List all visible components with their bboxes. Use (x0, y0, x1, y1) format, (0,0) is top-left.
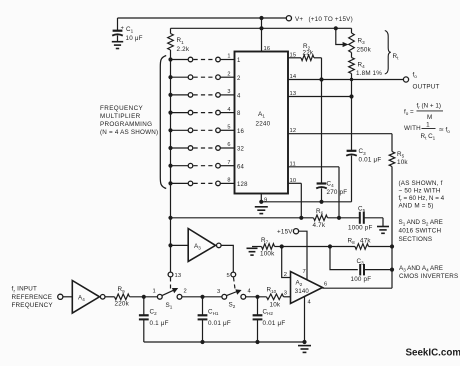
svg-text:+15V: +15V (277, 229, 293, 236)
svg-text:2240: 2240 (256, 121, 271, 128)
svg-text:15: 15 (290, 52, 297, 58)
switch row 2 (pin 2, weight 2) (168, 75, 172, 79)
svg-text:6: 6 (227, 142, 230, 148)
terminal V+ (286, 16, 291, 21)
svg-text:22k: 22k (303, 50, 314, 57)
wire switch common bus (170, 60, 172, 272)
capacitor C4 270pF (321, 80, 323, 184)
capacitor C5 1000pF (359, 212, 361, 224)
svg-text:2: 2 (184, 289, 187, 295)
resistor R10 10k (267, 294, 284, 300)
svg-text:3140: 3140 (295, 289, 310, 295)
capacitor C6 100pF feedback (330, 247, 358, 270)
svg-text:7: 7 (227, 160, 230, 166)
bracket frequency multiplier programming (160, 56, 166, 189)
svg-text:SECTIONS: SECTIONS (399, 236, 433, 243)
terminal 13 (S1 control) (168, 272, 173, 277)
svg-text:4: 4 (308, 299, 312, 305)
svg-text:250k: 250k (357, 47, 372, 54)
potentiometer R3 250k (351, 28, 353, 33)
svg-text:16: 16 (264, 46, 271, 52)
svg-text:9: 9 (264, 197, 267, 203)
pin 15 wire and R2 22k (288, 57, 301, 59)
svg-text:10k: 10k (397, 159, 408, 166)
svg-text:220k: 220k (115, 301, 130, 308)
svg-text:fo =: fo = (404, 108, 414, 116)
capacitor C2 0.1uF (143, 297, 145, 315)
switch row 6 (pin 6, weight 32) (168, 146, 172, 150)
wire bottom ground rail (144, 341, 305, 343)
svg-text:(N = 4 AS SHOWN): (N = 4 AS SHOWN) (100, 129, 158, 136)
svg-text:FREQUENCY: FREQUENCY (100, 105, 144, 112)
switch row 5 (pin 5, weight 16) (168, 128, 172, 132)
wire +15V to pin 7 (299, 231, 307, 280)
svg-text:16: 16 (237, 129, 245, 135)
svg-text:1000 pF: 1000 pF (348, 225, 373, 232)
svg-text:1: 1 (237, 58, 241, 64)
inverter A3 (188, 229, 215, 262)
svg-text:0.1 μF: 0.1 μF (150, 320, 169, 327)
resistor R1 2.2k (170, 28, 172, 33)
svg-text:1: 1 (426, 122, 430, 129)
svg-text:4: 4 (227, 107, 230, 113)
resistor R7 100k (252, 246, 262, 248)
svg-text:1.8M: 1.8M (356, 70, 371, 77)
svg-text:5: 5 (227, 273, 230, 279)
ground under C1 (112, 41, 123, 43)
svg-text:5: 5 (227, 125, 230, 131)
wire A3 input tap (168, 243, 172, 247)
svg-text:fr (N + 1): fr (N + 1) (417, 102, 441, 110)
svg-text:PROGRAMMING: PROGRAMMING (100, 121, 152, 128)
svg-text:10k: 10k (270, 302, 281, 309)
switch row 4 (pin 4, weight 8) (168, 111, 172, 115)
capacitor CH2 0.01uF (257, 297, 259, 315)
svg-text:8: 8 (237, 111, 241, 117)
svg-text:0.01 μF: 0.01 μF (208, 320, 231, 327)
svg-text:V+: V+ (295, 16, 303, 23)
svg-text:100 pF: 100 pF (351, 276, 372, 283)
svg-text:0.01 μF: 0.01 μF (359, 157, 382, 164)
node junction wire1/wire2 tie at pin16 column (261, 18, 263, 52)
wire A3 output to S2 control (221, 245, 233, 272)
wire V+ top rail (118, 17, 287, 19)
svg-text:3: 3 (217, 289, 220, 295)
svg-text:(AS SHOWN, f: (AS SHOWN, f (399, 180, 443, 187)
svg-text:4.7k: 4.7k (313, 222, 326, 229)
resistor R6 4.7k (314, 215, 328, 221)
wire pin 4 to ground (304, 297, 306, 342)
svg-text:32: 32 (237, 147, 245, 153)
svg-text:2: 2 (227, 71, 230, 77)
svg-text:OUTPUT: OUTPUT (413, 83, 440, 90)
svg-text:0.01 μF: 0.01 μF (263, 320, 286, 327)
terminal fo OUTPUT (403, 77, 408, 82)
ground at pin 9 (255, 206, 268, 208)
svg-text:~ 50 Hz WITH: ~ 50 Hz WITH (399, 187, 441, 194)
capacitor C3 0.01uF (351, 97, 353, 151)
svg-text:REFERENCE: REFERENCE (12, 294, 53, 301)
resistor R8 47k (355, 244, 369, 250)
wire node2 to node3 (182, 296, 222, 298)
switch row 8 (pin 8, weight 128) (168, 181, 172, 185)
svg-text:1: 1 (227, 54, 230, 60)
svg-text:+: + (121, 25, 124, 31)
wire inverting node (280, 244, 284, 248)
svg-text:fr INPUT: fr INPUT (12, 286, 38, 294)
svg-text:4: 4 (237, 94, 241, 100)
ground at op-amp pin 4 (298, 345, 311, 347)
svg-text:1: 1 (153, 289, 156, 295)
switch row 3 (pin 3, weight 4) (168, 93, 172, 97)
switch S2 (222, 294, 227, 299)
svg-text:47k: 47k (360, 237, 371, 244)
ground at R7 (247, 247, 258, 249)
svg-text:2: 2 (237, 76, 241, 82)
terminal 5 (S2 control) (231, 272, 236, 277)
svg-text:fr = 60 Hz, N = 4: fr = 60 Hz, N = 4 (399, 195, 445, 203)
svg-text:10 μF: 10 μF (126, 35, 143, 42)
svg-text:M: M (427, 114, 432, 121)
resistor R4 1.8M 1% (349, 58, 355, 74)
svg-text:CMOS INVERTERS: CMOS INVERTERS (399, 273, 458, 280)
resistor R5 10k (391, 134, 393, 152)
pin 9 wire and ground (260, 194, 262, 202)
op-amp U1: IC A1 2240 timer/counter box (235, 52, 289, 194)
inverter A4 (72, 281, 99, 314)
svg-text:2.2k: 2.2k (177, 46, 190, 53)
wire op-amp output pin 6 (323, 287, 393, 289)
svg-text:7: 7 (303, 269, 306, 275)
switch row 1 (pin 1, weight 1) (168, 57, 172, 61)
wire second supply rail (171, 27, 352, 29)
svg-text:13: 13 (175, 273, 182, 279)
svg-text:128: 128 (237, 182, 248, 188)
capacitor C1 10uF (117, 18, 119, 30)
svg-text:270 pF: 270 pF (327, 189, 348, 196)
svg-text:100k: 100k (260, 250, 275, 257)
svg-text:(+10 TO +15V): (+10 TO +15V) (309, 16, 353, 23)
ground after C5 (377, 226, 389, 228)
svg-text:6: 6 (324, 281, 327, 287)
svg-text:A3 AND A4 ARE: A3 AND A4 ARE (399, 265, 443, 273)
svg-text:3: 3 (227, 89, 230, 95)
svg-text:8: 8 (227, 178, 230, 184)
svg-text:3: 3 (284, 291, 287, 297)
terminal input (58, 294, 63, 299)
resistor R9 220k (105, 296, 115, 298)
svg-text:FREQUENCY: FREQUENCY (12, 302, 54, 309)
wire node4 to R10 (246, 296, 267, 298)
switch row 7 (pin 7, weight 64) (168, 164, 172, 168)
svg-text:64: 64 (237, 164, 245, 170)
svg-text:AND M = 5): AND M = 5) (399, 202, 434, 209)
svg-text:SeekIC.com: SeekIC.com (406, 348, 460, 359)
wire input to A4 (63, 296, 72, 298)
svg-text:MULTIPLIER: MULTIPLIER (100, 113, 141, 120)
svg-text:WITH: WITH (404, 125, 421, 132)
brace Rt total resistance (385, 31, 391, 75)
svg-text:4: 4 (248, 289, 252, 295)
op-amp A2 3140 (291, 272, 323, 304)
svg-text:S1 AND S2 ARE: S1 AND S2 ARE (399, 219, 443, 227)
capacitor CH1 0.01uF (202, 297, 204, 315)
svg-text:1%: 1% (373, 70, 383, 77)
wire timer output rail (168, 216, 172, 220)
switch S1 (157, 294, 162, 299)
wire grounded rail from pin 9 (261, 201, 351, 203)
svg-text:4016 SWITCH: 4016 SWITCH (399, 227, 442, 234)
